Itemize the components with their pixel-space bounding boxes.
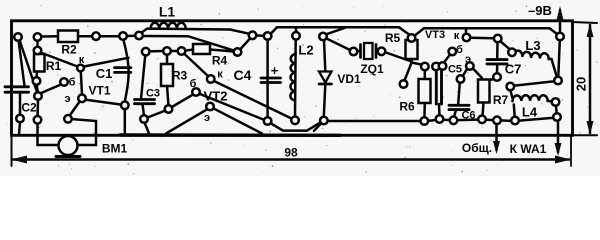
svg-text:R1: R1 [46,59,62,73]
wire R3 top [166,55,169,65]
resistor R3 [161,64,173,86]
pads [14,32,564,125]
svg-text:R6: R6 [399,100,415,114]
svg-text:э: э [64,93,70,105]
capacitor C7 plates [487,58,507,61]
dim 98 left arrowhead [11,156,27,164]
svg-text:R7: R7 [493,93,509,107]
wire pad below R1 down to BM1 pad [36,100,39,116]
crystal ZQ1 lead left [357,50,361,53]
svg-text:ZQ1: ZQ1 [360,62,384,76]
svg-text:R4: R4 [212,54,228,68]
dim 98 right arrowhead [555,156,571,164]
pad R7 bottom [478,116,486,124]
R5 top lead [410,37,413,40]
pad R3 top [163,47,171,55]
pad e VT2 [206,103,214,111]
VT3 k wire right [471,36,494,39]
pad L2 left top [292,32,300,40]
microphone BM1 circle [59,136,78,155]
resistor R4 [193,44,210,54]
pad b VT1 [60,78,68,86]
wire C3 pad to border [145,123,150,134]
svg-text:L3: L3 [525,38,540,53]
long bottom rail wire [327,120,421,123]
ZQ1 lead right [377,50,379,53]
svg-text:э: э [204,112,210,124]
wire R2 right [78,35,92,38]
svg-text:VD1: VD1 [337,72,361,86]
pad C7 top [494,35,502,43]
pad VD1 bottom [320,117,328,125]
pad link right [554,77,562,85]
wire pad181 diag to k VT2 [184,54,209,77]
pad below R1 [34,92,42,100]
wire b VT1 to pad below R1 [40,85,61,94]
resistor R1 [34,54,45,72]
pad C2 bottom [16,115,24,123]
pad b VT2 [192,88,200,96]
pad R5 low left [400,80,408,88]
wire R4 right [210,50,234,52]
wire R1 top pad to k VT1 pad [41,53,78,67]
wire e VT2 to border right [213,108,262,133]
resistor R7 [478,80,490,103]
resistor R5 [406,40,418,59]
dimension 98 line [13,158,569,161]
capacitor C6 plates [449,104,469,107]
scan speckle [7,5,598,174]
pad K WA1 [553,113,561,121]
wire: top-left pad to pad below R1 [20,40,38,92]
pad R2 right [92,32,100,40]
wire L4 left lead [510,90,512,98]
C2 bottom lead [19,93,22,115]
svg-text:C1: C1 [96,66,113,81]
pad R4 right [234,48,242,56]
pad rail 439 [436,115,444,123]
diode VD1 top lead [324,40,325,71]
resistor R2 [58,31,78,43]
C3 top pad wire right [150,50,164,53]
svg-text:к: к [217,69,223,81]
pad e VT1 [78,95,86,103]
pad R1/R2 junction [34,33,42,41]
wire R4 pad up to pad252 [240,38,251,50]
svg-text:C6: C6 [461,110,475,122]
inductor L4 [512,95,551,101]
wire e VT1 to BM1 right pad [69,101,80,117]
wire R6 top [424,70,427,80]
supply rail top wire [271,27,410,35]
wire pad2 down to R1 top pad [36,41,39,47]
wire R2 left [42,35,59,38]
wire R1 bottom pad to pad below [37,85,38,92]
C6 bottom lead [454,110,456,117]
svg-text:+: + [271,63,279,78]
L2 left stub [295,28,298,32]
inductor L2 vertical line [294,40,297,117]
pad 515 [511,117,519,125]
wire R7 bottom [483,103,484,117]
pad R1 bottom [33,77,41,85]
VT3 b wire [444,54,451,63]
C1 vertical lead (padA down to node pad) [123,40,128,102]
ZQ1 box [364,43,373,59]
capacitor C3 plates [135,98,155,101]
rail continuation right of R5 [415,28,557,35]
pad b VT3 [449,48,457,56]
pad R6 bottom [421,117,429,125]
C5 bottom lead [438,104,441,116]
svg-text:R3: R3 [172,69,188,83]
wire pad167 to pad181 [171,50,179,53]
pad C5 top [439,62,447,70]
wire cross link pads [514,81,555,86]
capacitor C1 plates [115,66,131,69]
wire b VT2 to C4 bottom pad [199,94,264,120]
pad L3 left [508,49,516,57]
dim 20 top arrowhead [587,24,594,38]
BM1 base bar [56,155,80,158]
wire pad323 to ZQ1 pad [327,39,352,51]
K WA1 arrow [557,119,560,152]
pad R6 top [421,63,429,71]
svg-text:C2: C2 [21,101,37,115]
pad C5 left top [432,63,440,71]
pad k VT2 [207,75,215,83]
bottom border thickening [120,133,340,137]
svg-text:VT1: VT1 [88,84,110,98]
wire padA to padB [127,34,135,37]
bottom right rail [428,118,554,121]
pad R4 left [178,47,186,55]
wire C7 pad to L3 left pad [500,41,511,50]
pad ZQ1 right [378,48,386,56]
svg-text:VT2: VT2 [204,89,228,104]
svg-text:20: 20 [574,77,589,91]
wire k VT1 diag up-right to C1 lead [84,58,129,67]
pad R1 top [34,47,42,55]
svg-text:R5: R5 [385,31,401,45]
pad rail 453 [450,117,458,125]
capacitor C4 plates [261,77,281,80]
resistor R6 [419,79,431,103]
svg-text:Общ.: Общ. [462,141,492,155]
wire VD1 pad diag to border [314,123,322,131]
wire C3 pad to R3 bottom pad [148,111,166,118]
wire L3 right down to pad [552,59,558,78]
node pad down to border [124,109,127,134]
pad k VT3 [463,34,471,42]
capacitor C2 plates [5,85,29,88]
pad e VT3 [466,62,474,70]
svg-text:L2: L2 [298,43,313,58]
svg-text:C7: C7 [505,62,522,77]
wire pad323 up to rail [326,28,346,35]
bottom border extension line [572,134,597,136]
right extension for 98 dim [570,135,572,166]
pad 252 [249,32,257,40]
svg-text:98: 98 [284,146,298,160]
C3 top lead down [141,56,145,100]
inductor L2 humps [290,54,295,101]
svg-text:б: б [190,78,197,90]
wire R3 pad to b VT2 [171,95,193,108]
dim 20 bottom arrowhead [587,121,594,135]
C7 bottom lead [496,65,499,75]
svg-text:э: э [465,54,471,66]
inductor L3 [514,51,552,59]
wire pad252 to pad267 [257,34,264,37]
wire e VT1 to node pad [86,100,122,105]
wire ZQ1 to R5 bottom junction [385,52,412,62]
pad A rail [119,32,127,40]
wire padB under L1 to R4 right pad [143,36,235,51]
pad L4 right [552,98,560,106]
pad BM1 right [64,115,72,123]
wire L4 right to pad [552,100,554,103]
BM1 left lead [38,123,58,145]
pad R5 top [408,34,416,42]
R5 bottom junction wires [410,59,413,63]
svg-text:C4: C4 [234,67,252,83]
svg-text:R2: R2 [61,43,77,57]
ZQ1 right plate [375,45,378,58]
L1 base line [141,29,250,34]
pad C3 top [142,48,150,56]
-9V supply arrow [559,10,562,33]
wire: top-left pad to C2 top plate [19,40,25,86]
svg-text:L4: L4 [522,105,538,120]
pad C7 bottom [493,73,501,81]
svg-text:–9В: –9В [528,3,552,18]
capacitor C5 plates [435,72,438,105]
top border extension line [572,22,597,23]
R1 leads [37,51,40,55]
pad node 124 [121,102,129,110]
pad ZQ1 left [350,48,358,56]
pad 460 [457,75,465,83]
wire pad460 down to C6 [458,82,460,104]
pad k VT1 [77,65,84,72]
wire k VT2 to L2 bottom pad [214,81,293,119]
wire -9V pad down [558,40,560,77]
svg-text:C3: C3 [146,88,160,100]
svg-text:б: б [69,77,76,89]
wire e VT2 to border left [166,110,207,134]
left border extension down [11,135,13,166]
svg-text:к: к [454,30,460,42]
wire C7 bottom pad to R7 top [486,79,495,81]
pad Obshch [493,117,501,125]
pad B rail [135,32,143,40]
inductor L1 humps [151,23,186,29]
pad BM1 left [34,116,42,124]
C4 vertical wire [266,40,269,117]
wire L4 pad down to KWA1 pad [556,105,557,114]
pad L2/VD1 top [319,33,327,41]
bottom dip wire [269,122,323,131]
pad top-left [14,33,22,41]
svg-text:к: к [79,54,85,66]
svg-text:C5: C5 [448,64,462,76]
VT3 e wire to pad460 [463,69,468,77]
svg-text:б: б [456,44,463,56]
C3 bottom lead [143,104,145,115]
pad link left [507,83,515,91]
pad C4 bottom [264,117,272,125]
pad C3 bottom [140,115,148,123]
svg-text:VT3: VT3 [425,29,445,41]
diode VD1 triangle [319,72,332,83]
wire R3 bottom [167,86,169,106]
capacitor C7 top lead [496,42,499,59]
dimension 20 line [589,25,592,133]
C2 pad to border stub [19,123,20,135]
diode VD1 bar [319,83,332,86]
svg-text:L1: L1 [159,4,176,20]
board outline [12,21,573,136]
BM1 right lead [71,119,96,145]
Obshch arrow (common) [495,121,498,150]
wire pad96 to padA [100,35,119,38]
svg-text:К WA1: К WA1 [510,142,547,156]
wire R4 left [185,50,193,51]
pad L2 bottom [291,117,299,125]
VT3 e wire right to R7 [473,68,483,78]
pad R3 bottom [165,105,173,113]
stub pad515 [514,105,515,119]
VD1 bottom lead [324,85,326,118]
ZQ1 left plate [359,45,362,58]
wire R6 bottom [423,103,426,119]
k VT3 stub [465,29,468,34]
pad 267 top [264,32,272,40]
pad -9V [556,33,564,41]
wire k VT1 down to e VT1 [81,72,82,95]
svg-text:BM1: BM1 [102,142,128,156]
